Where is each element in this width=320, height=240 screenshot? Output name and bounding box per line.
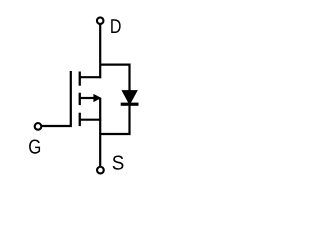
svg-text:D: D xyxy=(110,16,122,38)
svg-text:S: S xyxy=(112,152,125,174)
svg-text:G: G xyxy=(28,137,41,159)
